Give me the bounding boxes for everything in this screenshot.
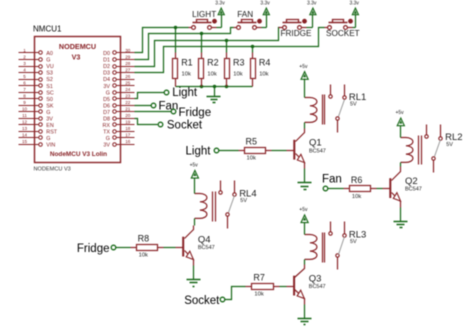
svg-text:10k: 10k — [254, 291, 263, 297]
svg-text:RST: RST — [46, 129, 57, 135]
svg-text:R4: R4 — [259, 57, 271, 67]
svg-text:1: 1 — [23, 48, 26, 53]
svg-text:S0: S0 — [46, 97, 53, 103]
svg-text:3.3v: 3.3v — [349, 0, 359, 6]
svg-text:Socket: Socket — [167, 119, 203, 131]
svg-text:10k: 10k — [259, 71, 268, 77]
svg-text:3V: 3V — [103, 84, 110, 90]
svg-text:26: 26 — [125, 74, 131, 79]
svg-text:3: 3 — [23, 61, 26, 66]
svg-text:FAN: FAN — [237, 10, 253, 19]
svg-text:29: 29 — [125, 55, 131, 60]
svg-text:VU: VU — [46, 64, 54, 70]
svg-text:+5v: +5v — [299, 207, 308, 213]
svg-text:23: 23 — [125, 94, 131, 99]
svg-text:R2: R2 — [207, 57, 219, 67]
svg-text:NODEMCU: NODEMCU — [59, 42, 96, 51]
svg-text:10k: 10k — [207, 71, 216, 77]
svg-text:RX: RX — [103, 123, 111, 129]
svg-text:5V: 5V — [350, 102, 357, 108]
svg-text:2: 2 — [23, 55, 26, 60]
svg-text:16: 16 — [125, 139, 131, 144]
svg-text:30: 30 — [125, 48, 131, 53]
svg-text:VIN: VIN — [46, 142, 55, 148]
svg-text:11: 11 — [22, 113, 27, 118]
svg-text:25: 25 — [125, 81, 131, 86]
svg-text:10k: 10k — [233, 71, 242, 77]
svg-text:5V: 5V — [350, 239, 357, 245]
svg-text:S3: S3 — [46, 71, 53, 77]
svg-text:18: 18 — [125, 126, 131, 131]
svg-text:NODEMCU V3: NODEMCU V3 — [34, 167, 71, 173]
svg-text:3.3v: 3.3v — [307, 0, 317, 6]
svg-text:G: G — [46, 58, 50, 64]
svg-text:5V: 5V — [446, 142, 453, 148]
svg-text:+5v: +5v — [395, 110, 404, 116]
svg-text:Q1: Q1 — [309, 137, 322, 148]
svg-text:R1: R1 — [181, 57, 193, 67]
svg-text:Socket: Socket — [184, 295, 220, 307]
svg-text:G: G — [46, 110, 50, 116]
svg-text:9: 9 — [23, 100, 26, 105]
svg-text:D7: D7 — [103, 110, 110, 116]
svg-text:BC547: BC547 — [405, 187, 422, 193]
svg-text:D3: D3 — [103, 71, 110, 77]
svg-text:7: 7 — [23, 87, 26, 92]
svg-text:14: 14 — [22, 133, 28, 138]
svg-text:6: 6 — [23, 81, 26, 86]
svg-text:FRIDGE: FRIDGE — [281, 29, 312, 38]
svg-text:D2: D2 — [103, 64, 110, 70]
svg-text:17: 17 — [125, 133, 131, 138]
svg-text:R3: R3 — [233, 57, 245, 67]
svg-text:R7: R7 — [253, 272, 265, 282]
svg-text:5V: 5V — [240, 198, 247, 204]
svg-text:D8: D8 — [103, 116, 110, 122]
svg-text:R5: R5 — [246, 136, 258, 146]
svg-text:20: 20 — [125, 113, 131, 118]
svg-text:8: 8 — [23, 94, 26, 99]
svg-text:3V: 3V — [46, 116, 53, 122]
svg-text:Q3: Q3 — [309, 273, 322, 284]
svg-text:24: 24 — [125, 87, 131, 92]
svg-text:19: 19 — [125, 120, 131, 125]
svg-text:3V: 3V — [103, 142, 110, 148]
svg-text:4: 4 — [23, 68, 26, 73]
svg-text:5: 5 — [23, 74, 26, 79]
svg-text:SC: SC — [46, 90, 54, 96]
svg-text:R6: R6 — [351, 175, 363, 185]
svg-text:A0: A0 — [46, 51, 53, 57]
svg-text:Light: Light — [172, 87, 198, 99]
svg-text:D0: D0 — [103, 51, 110, 57]
svg-text:10k: 10k — [247, 155, 256, 161]
svg-text:TX: TX — [103, 129, 110, 135]
svg-text:21: 21 — [125, 107, 131, 112]
svg-text:Q2: Q2 — [405, 176, 418, 187]
svg-text:SK: SK — [46, 103, 54, 109]
svg-text:Light: Light — [186, 145, 212, 157]
svg-text:Fridge: Fridge — [179, 107, 212, 119]
svg-text:G: G — [46, 136, 50, 142]
svg-text:10: 10 — [22, 107, 28, 112]
svg-text:G: G — [106, 90, 110, 96]
svg-text:3.3v: 3.3v — [260, 0, 270, 6]
svg-text:BC547: BC547 — [309, 148, 326, 154]
svg-text:V3: V3 — [72, 52, 81, 61]
svg-text:D4: D4 — [103, 77, 110, 83]
svg-text:S2: S2 — [46, 77, 53, 83]
svg-text:+5v: +5v — [299, 64, 308, 70]
svg-text:EN: EN — [46, 123, 54, 129]
svg-text:Fan: Fan — [322, 173, 342, 185]
svg-text:10k: 10k — [139, 252, 148, 258]
svg-text:10k: 10k — [182, 71, 191, 77]
svg-text:27: 27 — [125, 68, 131, 73]
svg-text:13: 13 — [22, 126, 28, 131]
svg-text:R8: R8 — [138, 233, 150, 243]
svg-text:22: 22 — [125, 100, 131, 105]
svg-text:G: G — [106, 136, 110, 142]
svg-text:28: 28 — [125, 61, 131, 66]
svg-text:3.3v: 3.3v — [215, 0, 225, 6]
svg-text:BC547: BC547 — [198, 245, 215, 251]
svg-text:D5: D5 — [103, 97, 110, 103]
svg-text:NodeMCU V3 Lolin: NodeMCU V3 Lolin — [50, 151, 107, 158]
svg-text:D1: D1 — [103, 58, 110, 64]
svg-text:Fridge: Fridge — [77, 243, 110, 255]
svg-text:D6: D6 — [103, 103, 110, 109]
svg-text:+5v: +5v — [190, 163, 199, 169]
svg-text:Q4: Q4 — [198, 234, 211, 245]
svg-text:10k: 10k — [352, 194, 361, 200]
svg-text:SOCKET: SOCKET — [326, 29, 360, 38]
svg-text:15: 15 — [22, 139, 28, 144]
svg-text:LIGHT: LIGHT — [192, 10, 216, 19]
svg-text:BC547: BC547 — [309, 284, 326, 290]
svg-text:12: 12 — [22, 120, 28, 125]
svg-text:NMCU1: NMCU1 — [33, 25, 62, 34]
svg-text:S1: S1 — [46, 84, 53, 90]
